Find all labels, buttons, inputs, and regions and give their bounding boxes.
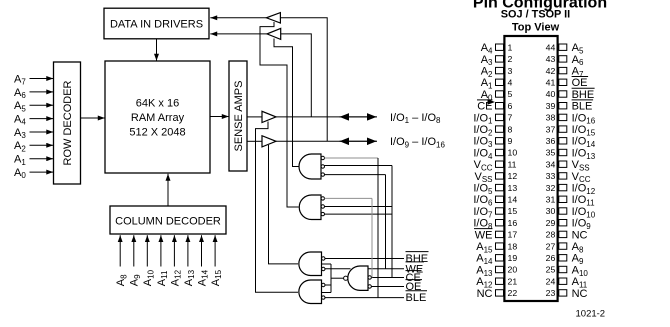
- wire G5 output vertical bus: [330, 264, 332, 293]
- node A12 input: [169, 235, 182, 286]
- pin 10 left I/O4: [473, 147, 517, 160]
- pin 5 left A0: [481, 89, 513, 102]
- svg-text:1: 1: [508, 42, 513, 52]
- pin 28 right NC: [546, 229, 588, 241]
- gate G4 output enable lower: [299, 280, 325, 304]
- svg-text:17: 17: [508, 230, 518, 240]
- wire G1 input 3: [325, 174, 386, 176]
- node A10 input: [142, 235, 155, 286]
- node A2 input: [14, 140, 53, 153]
- wire sense amps to U8: [247, 116, 262, 118]
- pin 39 right BLE: [546, 100, 593, 113]
- svg-text:5: 5: [508, 89, 513, 99]
- pin 3 left A2: [481, 66, 513, 79]
- svg-text:64K x 16: 64K x 16: [136, 98, 179, 110]
- pin 37 right I/O15: [546, 124, 596, 137]
- node A14 input: [196, 235, 209, 286]
- svg-text:COLUMN DECODER: COLUMN DECODER: [115, 216, 221, 228]
- gate G2 write enable lower: [299, 195, 324, 220]
- node OE label: [406, 280, 423, 294]
- svg-text:38: 38: [546, 113, 556, 123]
- svg-text:11: 11: [508, 159, 517, 169]
- pin 44 right A5: [546, 42, 584, 55]
- svg-text:6: 6: [508, 101, 513, 111]
- wire U7 input from I/O1 line: [281, 34, 312, 117]
- wire RAM to sense amps: [210, 116, 229, 118]
- pin 30 right I/O10: [546, 206, 596, 219]
- svg-text:Top View: Top View: [512, 22, 560, 34]
- svg-text:NC: NC: [572, 229, 588, 241]
- wire G1 input 2: [325, 165, 393, 167]
- svg-text:BLE: BLE: [406, 292, 427, 304]
- svg-text:28: 28: [546, 230, 556, 240]
- wire G4 input 1 stub: [325, 284, 331, 286]
- svg-text:16: 16: [508, 218, 518, 228]
- svg-text:27: 27: [546, 241, 556, 251]
- svg-text:37: 37: [546, 124, 556, 134]
- wire G4 middle input from G5: [322, 292, 332, 294]
- svg-text:12: 12: [508, 171, 518, 181]
- pin 16 left I/O8: [473, 218, 517, 231]
- svg-text:OE: OE: [572, 77, 588, 89]
- node A3 input: [14, 127, 53, 140]
- block U2 ROW DECODER: [54, 62, 81, 184]
- node A1 input: [14, 154, 53, 167]
- buffer U7 write driver lower: [267, 28, 281, 39]
- pin 22 left NC: [477, 288, 518, 300]
- pin 25 right A10: [546, 264, 589, 277]
- pin 7 left I/O1: [473, 112, 512, 125]
- svg-text:21: 21: [508, 276, 518, 286]
- pin 14 left I/O6: [473, 194, 517, 207]
- svg-text:3: 3: [508, 66, 513, 76]
- wire U7 output to data-in drivers: [210, 33, 267, 35]
- buffer U6 write driver upper: [266, 13, 280, 23]
- pin 34 right VSS: [546, 159, 590, 172]
- node BHE label: [406, 252, 429, 266]
- wire sense amps to U9: [247, 140, 262, 142]
- node A11 input: [156, 235, 169, 286]
- svg-text:24: 24: [546, 276, 556, 286]
- svg-text:BHE: BHE: [572, 89, 595, 101]
- svg-text:WE: WE: [475, 229, 493, 241]
- pin 36 right I/O14: [546, 136, 596, 149]
- wire I/O9-16 data line: [276, 140, 377, 142]
- package outline 44-pin: [504, 36, 557, 301]
- svg-text:NC: NC: [572, 288, 588, 300]
- pin 27 right A8: [546, 241, 584, 254]
- svg-text:SOJ / TSOP II: SOJ / TSOP II: [501, 8, 570, 20]
- svg-text:30: 30: [546, 206, 556, 216]
- wire U7 enable from gate G1: [274, 39, 299, 167]
- block U5 COLUMN DECODER: [110, 206, 226, 234]
- pin 1 left A4: [481, 42, 513, 55]
- wire G2 input 3: [325, 213, 393, 215]
- wire U6 output to data-in drivers: [210, 17, 266, 19]
- gate G5 chip/output enable nand: [344, 266, 372, 290]
- svg-text:NC: NC: [477, 288, 493, 300]
- node A15 input: [210, 235, 223, 286]
- pin 18 left A15: [476, 241, 517, 254]
- svg-text:22: 22: [508, 288, 518, 298]
- wire CE net: [371, 277, 404, 279]
- wire G2 input 1: [325, 197, 373, 199]
- svg-text:7: 7: [508, 113, 513, 123]
- wire G5 output to G3/G4: [331, 277, 344, 279]
- wire OE net: [371, 286, 404, 288]
- wire WE net: [325, 268, 351, 270]
- svg-text:29: 29: [546, 218, 556, 228]
- pin 33 right VCC: [546, 171, 591, 184]
- wire data-in drivers to RAM: [156, 39, 158, 61]
- pin 8 left I/O2: [473, 124, 512, 137]
- block U4 SENSE AMPS: [229, 61, 247, 171]
- pin 4 left A1: [481, 77, 513, 90]
- pin 13 left I/O5: [473, 183, 517, 196]
- pin 41 right OE: [546, 77, 588, 90]
- pin 19 left A14: [476, 253, 517, 266]
- svg-text:SENSE AMPS: SENSE AMPS: [233, 81, 245, 152]
- svg-text:35: 35: [546, 148, 556, 158]
- svg-text:25: 25: [546, 265, 556, 275]
- wire I/O1-8 double arrow: [340, 116, 377, 118]
- svg-text:9: 9: [508, 136, 513, 146]
- pin 12 left VSS: [474, 171, 517, 184]
- pin 15 left I/O7: [473, 206, 517, 219]
- svg-text:2: 2: [508, 54, 513, 64]
- svg-text:8: 8: [508, 124, 513, 134]
- buffer U8 output buffer upper: [262, 111, 276, 122]
- wire G3 middle input from G5: [322, 263, 332, 265]
- wire column decoder to RAM: [167, 174, 169, 206]
- svg-text:26: 26: [546, 253, 556, 263]
- wire vertical BLE to G1: [377, 158, 379, 298]
- pin 17 left WE: [474, 229, 517, 242]
- gate G3 output enable upper: [299, 252, 325, 276]
- wire U9 enable from gate G3: [269, 145, 299, 264]
- wire G1 input 1: [325, 157, 379, 159]
- pin 23 right NC: [546, 288, 588, 300]
- svg-text:33: 33: [546, 171, 556, 181]
- svg-text:512 X 2048: 512 X 2048: [129, 127, 185, 139]
- svg-text:ROW DECODER: ROW DECODER: [62, 80, 74, 165]
- gate G1 write enable upper: [299, 154, 324, 179]
- pin 43 right A6: [546, 54, 584, 67]
- node BLE label: [406, 291, 428, 305]
- pin 9 left I/O3: [473, 136, 512, 149]
- pin 42 right A7: [546, 66, 584, 79]
- svg-text:39: 39: [546, 101, 556, 111]
- node WE label: [406, 262, 425, 276]
- wire row decoder to RAM: [81, 117, 105, 119]
- svg-text:41: 41: [546, 78, 556, 88]
- wire U6 enable from gate G2: [260, 22, 299, 207]
- wire BHE net: [325, 258, 404, 260]
- node A6 input: [14, 87, 53, 100]
- svg-text:20: 20: [508, 265, 518, 275]
- pin 21 left A12: [476, 276, 517, 289]
- svg-text:15: 15: [508, 206, 518, 216]
- pin 35 right I/O13: [546, 147, 596, 160]
- block U1 DATA IN DRIVERS: [104, 8, 209, 39]
- pin 38 right I/O16: [546, 112, 596, 125]
- svg-text:43: 43: [546, 54, 556, 64]
- pin 20 left A13: [476, 264, 517, 277]
- wire vertical WE to G1: [385, 175, 387, 269]
- svg-text:13: 13: [508, 183, 518, 193]
- pin 32 right I/O12: [546, 183, 596, 196]
- wire U8 enable from gate G4: [256, 122, 299, 293]
- node A8 input: [115, 235, 128, 286]
- svg-text:23: 23: [546, 288, 556, 298]
- wire I/O9-16 double arrow: [340, 140, 377, 142]
- svg-text:31: 31: [546, 195, 556, 205]
- svg-text:RAM Array: RAM Array: [131, 112, 185, 124]
- wire U6 input from I/O9 line: [280, 18, 327, 142]
- pin 11 left VCC: [474, 159, 517, 172]
- pin 6 left CE: [477, 100, 513, 113]
- pin 5/6 arrow artifact: [488, 99, 496, 105]
- pin 2 left A3: [481, 54, 513, 67]
- node A0 input: [14, 167, 53, 180]
- svg-text:14: 14: [508, 195, 518, 205]
- svg-text:32: 32: [546, 183, 556, 193]
- pin 29 right I/O9: [546, 218, 592, 231]
- svg-text:BLE: BLE: [572, 101, 593, 113]
- wire I/O1-8 data line: [276, 116, 377, 118]
- wire vertical CE to G2: [371, 198, 373, 277]
- wire G2 input 2: [325, 206, 393, 208]
- svg-text:42: 42: [546, 66, 556, 76]
- node A13 input: [183, 235, 196, 286]
- svg-text:19: 19: [508, 253, 518, 263]
- block U3 RAM array 64K x 16: [105, 61, 210, 173]
- wire BLE net: [325, 297, 404, 299]
- svg-text:36: 36: [546, 136, 556, 146]
- svg-text:34: 34: [546, 159, 556, 169]
- svg-text:40: 40: [546, 89, 556, 99]
- node A5 input: [14, 100, 53, 113]
- pin 24 right A11: [546, 276, 588, 289]
- pin 26 right A9: [546, 253, 584, 266]
- svg-text:I/O1 – I/O8: I/O1 – I/O8: [390, 112, 441, 125]
- svg-text:18: 18: [508, 241, 518, 251]
- pin 40 right BHE: [546, 88, 595, 101]
- node A4 input: [14, 114, 53, 127]
- svg-text:DATA IN DRIVERS: DATA IN DRIVERS: [110, 19, 203, 31]
- node CE label: [406, 271, 422, 285]
- node A9 input: [129, 235, 142, 286]
- buffer U9 output buffer lower: [262, 136, 276, 147]
- svg-text:44: 44: [546, 42, 556, 52]
- svg-text:1021-2: 1021-2: [576, 308, 606, 319]
- pin 31 right I/O11: [546, 194, 595, 207]
- wire vertical CE to G1/G2: [391, 166, 393, 278]
- svg-text:4: 4: [508, 78, 513, 88]
- node A7 input: [14, 73, 53, 86]
- svg-text:10: 10: [508, 148, 518, 158]
